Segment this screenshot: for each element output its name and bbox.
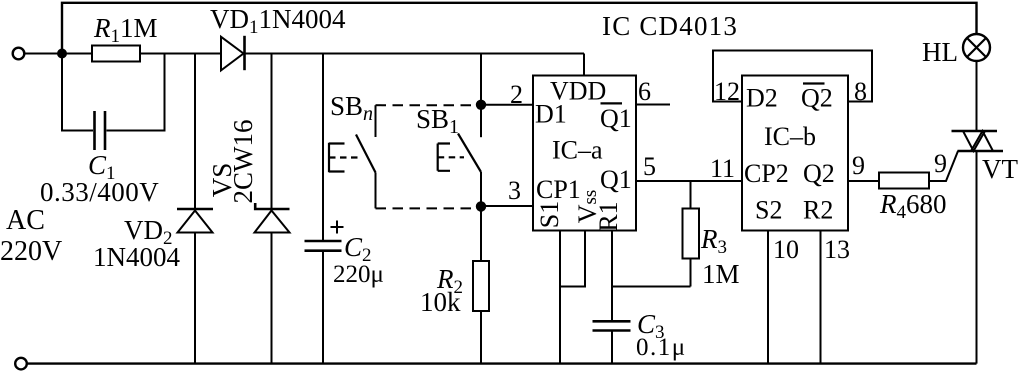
svg-text:3: 3 [508,176,521,205]
svg-text:1N4004: 1N4004 [93,242,180,272]
svg-text:Q2: Q2 [803,159,835,188]
svg-text:AC: AC [6,205,45,236]
svg-text:220μ: 220μ [333,261,384,288]
svg-text:Q1: Q1 [600,104,632,133]
capacitor C3 plates [593,321,631,330]
svg-text:6: 6 [638,77,651,106]
svg-text:9: 9 [852,151,865,180]
svg-text:8: 8 [854,77,867,106]
svg-text:IC–b: IC–b [764,122,816,151]
wire pin 10 S2 to ground [767,231,769,364]
svg-text:D1: D1 [535,100,567,129]
wire pin 6 Q1bar stub [636,104,670,106]
wire pin 2 D1 [481,104,533,106]
resistor R3 [683,209,700,259]
wire SB1 branch top (main line to dot, stub) [480,54,482,138]
button cap SBn [329,143,345,173]
switch SBn stub [375,105,377,137]
button cap SB1 [438,144,450,171]
svg-text:Q1: Q1 [600,165,632,194]
svg-text:220V: 220V [0,236,62,267]
wire lamp to triac [976,61,978,131]
svg-text:CP2: CP2 [744,159,789,188]
node dot SB bottom [476,201,486,211]
wire C3 to ground [611,331,613,364]
capacitor C2 polarity plus [331,221,344,234]
IC-b box CD4013 flip-flop b [742,76,848,231]
op-amp? IC-a box CD4013 flip-flop a [533,76,636,231]
diode VD1 [221,37,244,71]
svg-text:S1: S1 [535,201,564,228]
svg-text:SBn: SBn [330,91,373,125]
svg-text:2CW16: 2CW16 [228,120,258,204]
wire SBn bottom [375,173,377,209]
wire pin 13 R2 to ground [820,231,822,364]
wire R3 top to pin5 wire [690,181,692,209]
svg-text:Q2: Q2 [801,84,833,113]
wire C3 node to R3 bottom [612,286,691,288]
svg-text:12: 12 [714,77,740,106]
wire SB1 branch bottom to R2 [480,172,482,364]
switch SB1 arm [458,134,481,173]
svg-text:0.33/400V: 0.33/400V [40,177,159,207]
svg-text:R3: R3 [700,224,727,258]
node junction at R1 input [57,49,67,59]
dashed link top SBn-SB1 [376,104,478,106]
wire R4 to triac gate [929,151,958,181]
switch SBn arm [356,135,376,173]
svg-text:IC CD4013: IC CD4013 [602,11,738,41]
svg-text:1M: 1M [702,259,740,289]
svg-text:10: 10 [773,235,799,264]
wire VS branch vertical [271,54,273,364]
svg-text:S2: S2 [755,196,782,225]
svg-text:CP1: CP1 [536,175,581,204]
svg-text:11: 11 [710,154,735,183]
svg-text:R2: R2 [803,196,833,225]
wire VD2 branch vertical [194,54,196,364]
node dot SB top [476,100,486,110]
wire bottom rail [27,362,977,364]
zener VS [255,211,290,233]
svg-text:9: 9 [934,149,947,178]
capacitor C1 loop wires [62,54,165,131]
wire Vss to S1 wire [560,231,585,287]
svg-text:IC–a: IC–a [552,136,603,165]
triac VT [952,131,1004,151]
svg-text:5: 5 [643,152,656,181]
capacitor C1 plates [95,111,106,150]
svg-text:0.1μ: 0.1μ [636,334,687,361]
resistor R4 [879,173,929,189]
terminal input bottom [15,358,27,370]
wire pin 9 Q2 to R4 [848,180,879,182]
wire pin 3 CP1 [481,205,533,207]
wire triac to bottom rail [976,151,978,364]
resistor R2 [473,261,489,311]
wire C2 branch vertical [322,54,324,364]
svg-text:VT: VT [982,154,1018,184]
svg-text:D2: D2 [746,84,778,113]
wire pin 5 Q1 to pin 11 CP2 [636,180,742,182]
wire R1 pin down to C3 node [611,231,613,322]
svg-text:R11M: R11M [93,13,158,47]
svg-text:R4680: R4680 [879,189,947,223]
capacitor C2 plates [305,241,342,251]
dashed link bottom SBn-SB1 [376,207,478,209]
svg-text:SB1: SB1 [416,104,459,138]
wire S1 to ground [559,231,561,364]
svg-text:HL: HL [922,37,958,67]
svg-text:VD11N4004: VD11N4004 [210,4,346,38]
svg-text:R1: R1 [594,201,623,231]
lamp HL [963,34,990,61]
terminal input top [13,48,25,60]
wire R3 bottom [690,259,692,287]
wire main AC line y=53.5 [25,53,585,55]
wire top rail with right drop to lamp [62,3,977,54]
resistor R1 [92,46,140,62]
svg-text:2: 2 [510,80,523,109]
svg-text:10k: 10k [420,287,461,317]
diode VD2 [178,211,213,233]
svg-text:13: 13 [824,235,850,264]
wire VDD to main line [583,54,585,76]
wire feedback loop pin12 D2 to pin8 Q2bar [713,51,872,102]
